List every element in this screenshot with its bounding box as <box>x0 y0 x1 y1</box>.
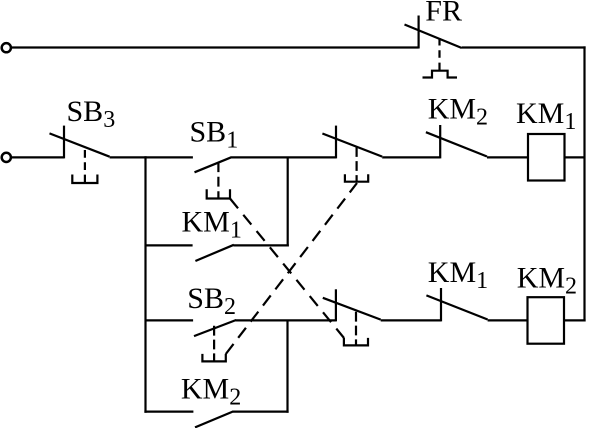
SB1 interlock pushbutton cap <box>344 338 368 346</box>
svg-text:SB1: SB1 <box>190 116 239 154</box>
terminal circle top-left <box>2 43 11 52</box>
contactor NC contact KM1 (row2) <box>426 288 487 321</box>
svg-text:KM2: KM2 <box>181 373 241 411</box>
FR reset symbol <box>423 71 458 78</box>
wire row1 KM2 NC to coil <box>487 156 528 158</box>
svg-text:SB2: SB2 <box>187 282 236 320</box>
wire row1 left <box>12 156 65 158</box>
svg-text:KM2: KM2 <box>517 261 577 299</box>
pushbutton NC contact SB2 interlock (row1) <box>322 126 382 159</box>
mechanical interlock dashed link SB1 to row2 NC <box>230 199 344 339</box>
terminal circle mid-left <box>2 153 11 162</box>
wire row1 middle NC to KM2 NC <box>382 156 440 158</box>
wire KM2 aux row right <box>233 411 289 413</box>
coil KM2 <box>528 297 565 344</box>
wire row1 coil to right rail <box>565 156 585 158</box>
svg-text:KM1: KM1 <box>516 97 576 135</box>
thermal relay NC contact FR <box>405 16 462 49</box>
FR actuator dashed link <box>438 38 440 71</box>
svg-text:FR: FR <box>425 0 462 28</box>
wire group2 right bus <box>286 320 288 412</box>
wire left bus vertical <box>144 156 146 412</box>
wire row2 coil to right rail <box>564 319 586 321</box>
SB2 interlock pushbutton cap <box>345 174 368 182</box>
svg-text:KM2: KM2 <box>428 92 488 130</box>
pushbutton NC contact SB1 interlock (row2) <box>323 289 381 321</box>
contactor NO auxiliary contact KM1 <box>195 245 233 261</box>
wire top rail left <box>12 46 419 48</box>
SB2 pushbutton cap <box>202 354 225 362</box>
wire row2 left <box>146 319 194 321</box>
wire top rail right <box>462 46 586 48</box>
stop button NC contact SB3 <box>50 126 110 159</box>
SB1 interlock actuator dashed link <box>355 312 357 345</box>
contactor NO auxiliary contact KM2 <box>195 411 233 427</box>
wire KM1 aux row right <box>234 244 289 246</box>
wire row2 SB2 to middle NC <box>236 319 336 321</box>
wire row1 SB3 to SB1 <box>110 156 193 158</box>
wire right rail <box>583 46 585 321</box>
svg-text:KM1: KM1 <box>428 256 488 294</box>
wire row1 SB1 to middle NC <box>231 156 336 158</box>
wire row2 KM1 NC to coil <box>488 319 528 321</box>
SB1 pushbutton cap <box>207 189 230 198</box>
contactor NC contact KM2 (row1) <box>426 125 487 158</box>
wire group1 right bus <box>287 157 289 246</box>
SB3 pushbutton cap <box>72 175 97 184</box>
SB1 actuator dashed link <box>217 162 219 197</box>
wire KM2 aux row left <box>144 411 193 413</box>
SB2 interlock actuator dashed link <box>356 147 358 181</box>
svg-text:KM1: KM1 <box>182 205 242 243</box>
start button NO contact SB1 <box>195 157 232 172</box>
mechanical interlock dashed link SB2 to row1 NC <box>226 183 357 354</box>
SB3 actuator dashed link <box>84 150 86 183</box>
start button NO contact SB2 <box>194 320 236 336</box>
wire row2 middle NC to KM1 NC <box>381 319 441 321</box>
coil KM1 <box>528 134 565 181</box>
SB2 actuator dashed link <box>213 326 215 361</box>
wire KM1 aux row left <box>146 244 193 246</box>
svg-text:SB3: SB3 <box>67 95 116 133</box>
